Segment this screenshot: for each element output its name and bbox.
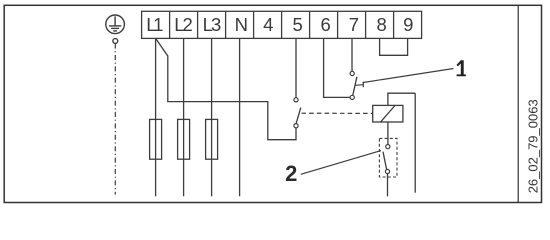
wire switch 2 down [387,174,389,197]
switch 1 top pin [350,71,354,75]
terminal block X1 outline [142,11,422,38]
wire N down [239,38,241,196]
switch 2 bottom pin [385,169,389,173]
svg-text:2: 2 [285,161,297,186]
relay contact K1.1 blade [296,108,301,124]
relay contact K1.1 top pin [294,98,298,102]
label 1 [457,60,466,76]
svg-text:26_02_79_0063: 26_02_79_0063 [525,99,540,193]
relay coil K1 [373,105,403,122]
wire L3 down [211,38,213,196]
switch 1 blade [353,77,357,95]
switch 2 enclosure (dashed box) [379,138,397,177]
protective earth symbol PE [106,15,125,43]
svg-text:9: 9 [403,14,413,35]
terminal dividers [170,11,394,38]
jumper between terminals 8 and 9 [380,38,408,55]
fuse F1 [150,119,162,159]
fuse F2 [178,119,190,159]
wire coil K1 top to node [388,93,415,105]
svg-text:6: 6 [320,14,330,35]
switch 1 manual actuator [355,82,363,88]
svg-text:N: N [235,14,248,35]
mechanical link to coil K1 (dashed) [302,112,373,114]
wire right branch down [414,93,416,193]
svg-text:5: 5 [293,14,303,35]
fuse F3 [206,119,218,159]
leader line to label 2 [301,151,381,175]
wire L2 down [183,38,185,196]
wire coil K1 bottom to switch 2 [387,122,389,145]
relay contact K1.1 bottom pin [294,124,298,128]
wire terminal 7 down [351,38,353,71]
wire L1 branch to contact K1.1 [156,39,296,140]
svg-text:2: 2 [183,14,193,35]
svg-text:8: 8 [377,14,387,35]
switch 2 blade [383,152,387,170]
wire terminal 5 down [295,38,297,97]
terminal labels L1 L2 L3 N 4 5 6 7 8 9 [146,14,413,35]
switch 2 top pin [386,145,390,149]
svg-text:4: 4 [263,14,273,35]
svg-text:3: 3 [211,14,221,35]
wire L1 down [155,38,157,196]
wire terminal 6 to switch 1 bottom pin [324,38,351,97]
svg-text:7: 7 [349,14,359,35]
svg-text:1: 1 [153,14,163,35]
leader line to label 1 [363,69,454,83]
earth conductor dash-dot line [114,44,116,195]
switch 1 bottom pin [350,95,354,99]
